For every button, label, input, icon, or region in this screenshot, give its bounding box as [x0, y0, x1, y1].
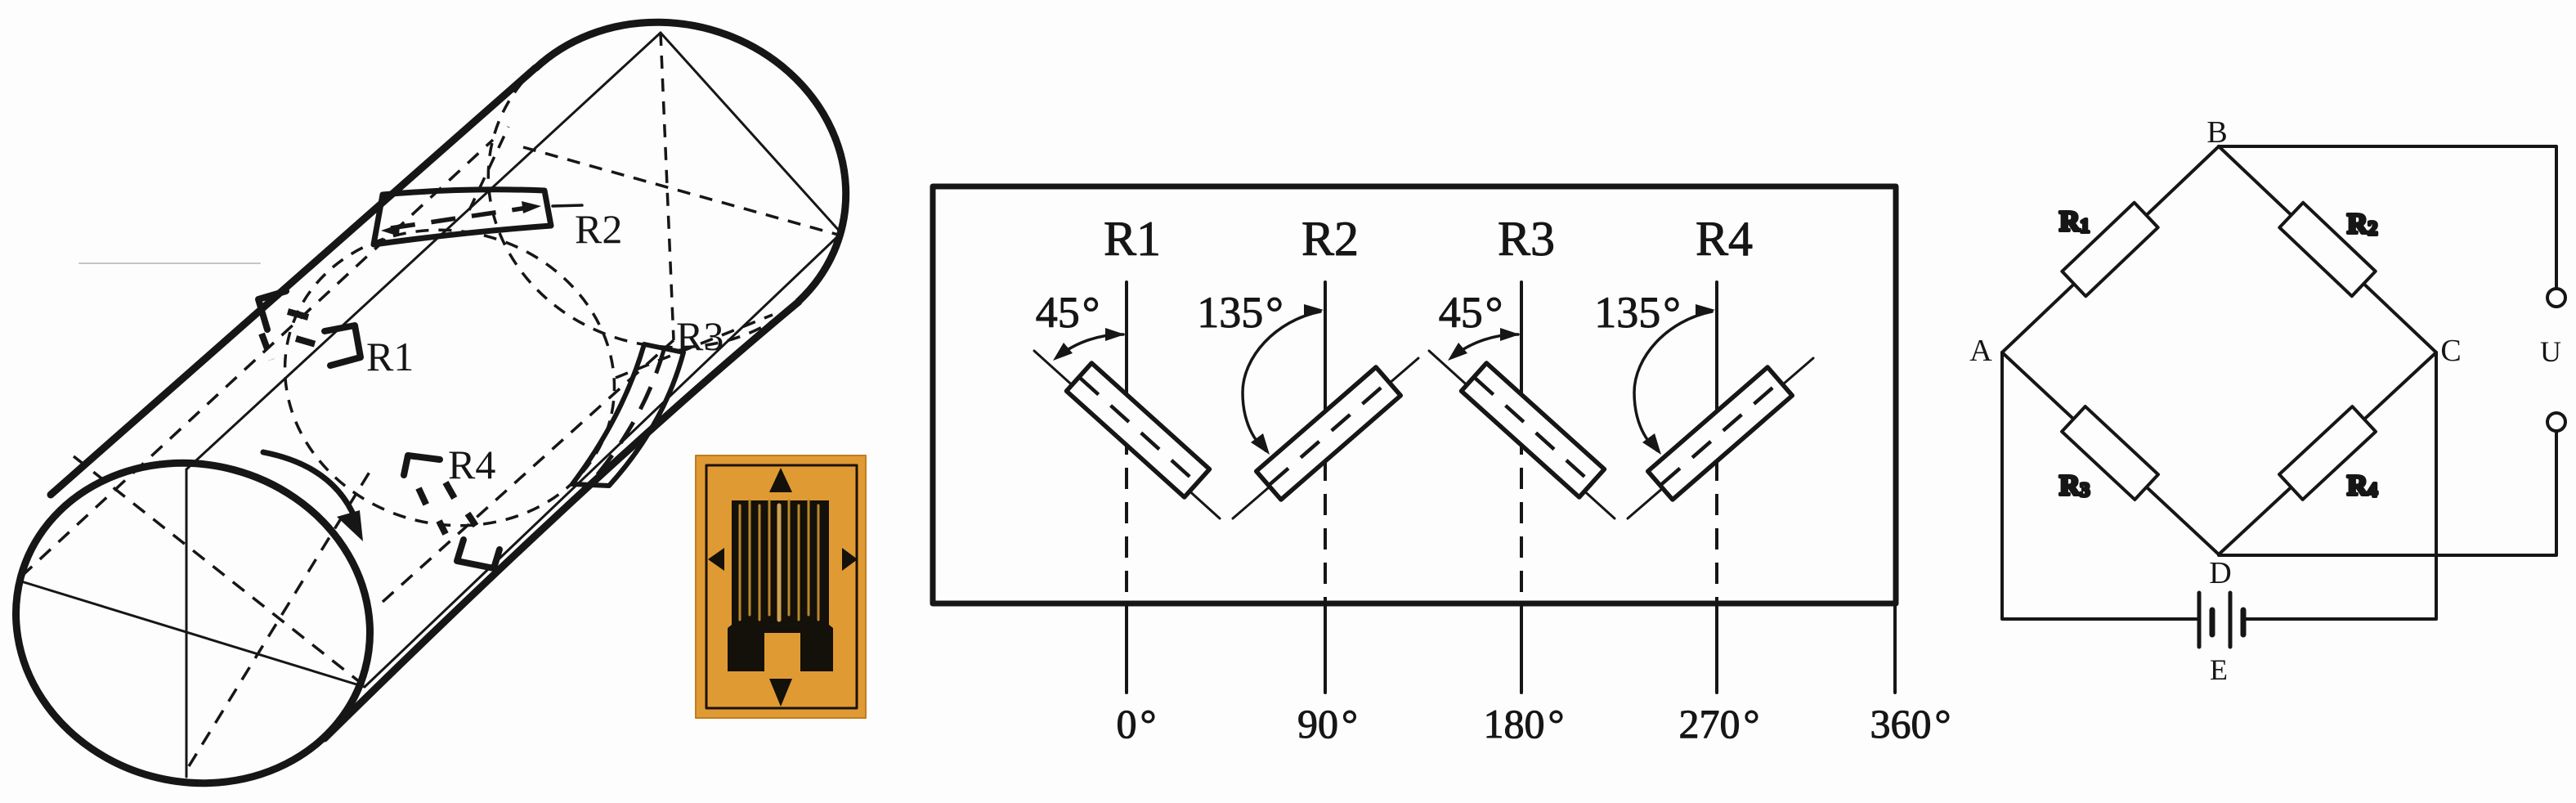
svg-text:R1: R1 [366, 334, 414, 379]
svg-text:R4: R4 [1696, 212, 1753, 266]
wire A down to battery [2002, 352, 2197, 619]
gauge R2 (band on top surface) [374, 190, 551, 244]
svg-text:R1: R1 [1104, 212, 1161, 266]
tick 0 deg [1125, 605, 1128, 693]
tick 360 deg [1893, 605, 1897, 693]
front face vertical diameter [186, 469, 188, 777]
svg-text:0°: 0° [1117, 701, 1157, 747]
gauge R1 diagonal axis line [1034, 351, 1220, 518]
gauge R3 rectangle [1462, 363, 1605, 497]
cylinder body [0, 0, 883, 803]
gauge R4 (hidden dashed bracket) [404, 455, 500, 568]
svg-text:R4: R4 [2347, 469, 2377, 501]
battery E short plate 2 [2241, 610, 2247, 635]
svg-text:135°: 135° [1197, 288, 1284, 337]
R2 vertical line [1324, 282, 1327, 425]
wire B to output [2219, 146, 2556, 289]
svg-text:R2: R2 [2347, 208, 2377, 240]
wire A-D [2002, 352, 2219, 554]
lower silhouette line [325, 302, 799, 738]
gauge R2 rectangle [1257, 367, 1401, 500]
wire B-C [2219, 146, 2436, 352]
svg-text:B: B [2206, 115, 2227, 150]
wire A-B [2002, 146, 2219, 352]
far cap visible thick arc [451, 0, 882, 387]
45 deg arc R1 [1053, 328, 1125, 361]
bottom hidden generator (dashed) [383, 340, 674, 602]
outer rectangle [933, 186, 1896, 603]
gauge R3 (curved band on right surface) [572, 344, 683, 486]
terminal lower [2547, 413, 2565, 431]
svg-text:270°: 270° [1679, 701, 1760, 747]
tick 90 deg [1324, 605, 1327, 693]
svg-text:R4: R4 [448, 442, 495, 487]
135 deg arc R2 [1243, 304, 1324, 455]
svg-text:R2: R2 [575, 206, 622, 252]
svg-text:R3: R3 [1498, 212, 1555, 266]
far face dashed diameter [523, 147, 838, 235]
far face solid diameter top-to-right [661, 33, 841, 233]
steep dashed helix line on front face [189, 469, 371, 766]
resistor R2 [2279, 203, 2375, 296]
gauge R2 diagonal axis line [1233, 358, 1418, 518]
R1 vertical line [1125, 282, 1128, 433]
R2 pointer line [553, 205, 582, 206]
svg-text:135°: 135° [1594, 288, 1681, 337]
135 deg arc R4 [1634, 304, 1715, 455]
svg-text:45°: 45° [1036, 288, 1100, 337]
top surface generator (thin) [186, 33, 661, 469]
front face tilted diameter [21, 581, 365, 687]
svg-text:90°: 90° [1297, 701, 1358, 747]
front face ellipse [0, 424, 406, 803]
right surface generator (thin) [365, 233, 841, 687]
battery E short plate 1 [2210, 610, 2215, 635]
inner border [706, 465, 857, 708]
gauge R3 diagonal axis line [1429, 351, 1615, 518]
resistor R4 [2279, 406, 2376, 500]
rotation arrow [263, 452, 356, 522]
alignment triangles [769, 468, 792, 492]
far cap hidden dashed rim [451, 62, 839, 381]
tick 180 deg [1520, 605, 1523, 693]
left hidden generator (dashed) [21, 140, 493, 576]
wire battery to C [2245, 352, 2436, 619]
gauges on cylinder [258, 127, 724, 568]
svg-text:D: D [2209, 556, 2231, 590]
svg-text:U: U [2540, 335, 2561, 368]
tick 270 deg [1715, 605, 1718, 693]
gauge R1 rectangle [1067, 363, 1210, 497]
orange backing [696, 455, 866, 718]
svg-text:R1: R1 [2059, 205, 2090, 237]
svg-text:360°: 360° [1870, 701, 1951, 747]
svg-text:C: C [2440, 334, 2461, 368]
gauge R4 rectangle [1648, 367, 1793, 500]
R3 vertical line [1520, 282, 1523, 433]
faint scan artifact line [79, 262, 260, 264]
svg-text:A: A [1969, 334, 1992, 368]
gauge R1 (edge-on bracket on upper-left surface) [258, 291, 361, 366]
svg-text:E: E [2210, 653, 2228, 686]
svg-text:180°: 180° [1484, 701, 1565, 747]
battery E long plate 1 [2197, 593, 2202, 647]
helix dashed segment above R2 [469, 127, 508, 210]
45 deg arc R3 [1448, 328, 1520, 361]
middle cross-section dashed ellipse [252, 194, 648, 563]
battery E long plate 2 [2229, 593, 2233, 647]
svg-text:R2: R2 [1301, 212, 1359, 266]
dashed line toward R3 label [616, 315, 773, 378]
resistor R1 [2062, 203, 2157, 297]
R4 vertical line [1715, 282, 1718, 425]
front face dashed diagonal [74, 456, 364, 685]
orange strain gauge inset [696, 455, 866, 718]
svg-text:R3: R3 [2059, 469, 2090, 501]
far face dashed vertical diameter [661, 33, 674, 340]
wire lower terminal to D [2219, 431, 2556, 555]
terminal upper [2547, 289, 2565, 307]
grid slits [740, 500, 818, 620]
gauge R4 diagonal axis line [1628, 358, 1813, 518]
measuring grid block [728, 500, 833, 671]
svg-text:R3: R3 [676, 313, 724, 359]
svg-text:45°: 45° [1439, 288, 1503, 337]
upper silhouette line [51, 68, 535, 495]
resistor R3 [2062, 406, 2158, 500]
wire D-C [2219, 352, 2436, 554]
